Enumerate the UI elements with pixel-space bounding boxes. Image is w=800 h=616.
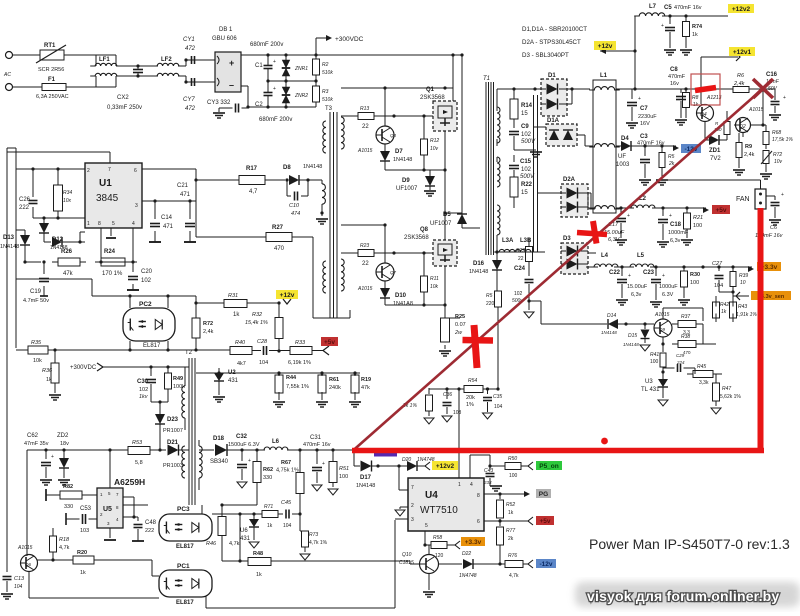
svg-text:100: 100 xyxy=(650,359,659,365)
svg-text:1%: 1% xyxy=(466,402,474,408)
svg-text:Q10: Q10 xyxy=(402,552,412,558)
svg-text:ZNR1: ZNR1 xyxy=(294,66,308,72)
svg-text:3845: 3845 xyxy=(96,193,119,204)
resistor R20 xyxy=(73,550,94,576)
wire xyxy=(567,87,590,104)
svg-text:470mF 16v: 470mF 16v xyxy=(637,141,665,147)
svg-text:PC2: PC2 xyxy=(139,301,152,308)
svg-text:R74: R74 xyxy=(692,24,703,30)
svg-text:+: + xyxy=(669,213,672,219)
T3 winding right xyxy=(341,117,344,149)
svg-text:A1015: A1015 xyxy=(654,312,670,318)
wire U6 row xyxy=(212,512,302,562)
wire xyxy=(196,179,238,181)
svg-text:R42: R42 xyxy=(720,302,729,308)
resistor R13 xyxy=(358,106,374,130)
svg-text:3,3k: 3,3k xyxy=(699,380,709,386)
svg-text:EL817: EL817 xyxy=(176,544,194,550)
svg-text:104: 104 xyxy=(14,584,23,590)
wire Q9 top xyxy=(663,308,703,321)
svg-text:+: + xyxy=(273,59,276,65)
capacitor C23 xyxy=(643,267,678,307)
label +5v xyxy=(536,516,554,525)
resistor R14 xyxy=(510,89,533,119)
resistor R77 xyxy=(497,521,516,564)
svg-text:10: 10 xyxy=(740,280,746,286)
resistor R58 xyxy=(431,535,447,559)
svg-text:D13: D13 xyxy=(3,235,15,241)
inductor LF2 xyxy=(152,57,184,76)
wire xyxy=(341,115,358,117)
svg-text:PC3: PC3 xyxy=(177,506,190,513)
svg-text:102: 102 xyxy=(141,278,152,284)
capacitor C30 xyxy=(137,367,156,402)
svg-text:C45: C45 xyxy=(281,500,292,506)
svg-text:D1: D1 xyxy=(548,73,556,79)
svg-text:R19: R19 xyxy=(361,377,371,383)
svg-text:1N4148: 1N4148 xyxy=(356,483,375,489)
shunt regulator U3 TL431 xyxy=(641,374,668,406)
wire xyxy=(271,561,419,564)
svg-text:+12v: +12v xyxy=(598,43,613,50)
svg-text:L4: L4 xyxy=(601,253,609,259)
diode D14 xyxy=(601,313,626,335)
wire xyxy=(385,168,447,171)
svg-text:1k: 1k xyxy=(256,572,262,578)
svg-text:C9: C9 xyxy=(521,124,529,130)
T2 winding bottom L xyxy=(182,446,185,478)
svg-text:+: + xyxy=(627,213,630,219)
resistor R21 xyxy=(681,208,703,245)
svg-text:1: 1 xyxy=(458,482,461,488)
svg-text:7: 7 xyxy=(411,485,414,491)
resistor R62 xyxy=(220,450,273,507)
resistor R45 xyxy=(687,364,722,386)
capacitor C28 xyxy=(252,339,290,366)
wire +12v2 feed xyxy=(634,16,636,89)
capacitor C19 xyxy=(23,262,49,304)
wire xyxy=(292,237,313,318)
svg-text:D23: D23 xyxy=(167,417,179,423)
wire xyxy=(48,348,281,352)
svg-text:510k: 510k xyxy=(322,70,333,76)
svg-text:LF1: LF1 xyxy=(99,57,110,63)
svg-text:100: 100 xyxy=(690,280,699,286)
label +12v2 xyxy=(728,4,754,13)
svg-text:C43: C43 xyxy=(484,468,493,474)
wire pin5 xyxy=(423,531,431,554)
svg-text:4,75k 1%: 4,75k 1% xyxy=(276,468,299,474)
capacitor C53 xyxy=(66,506,97,534)
T2 winding bottom R xyxy=(199,440,202,490)
wire xyxy=(483,388,499,390)
wire Q10 base xyxy=(438,563,462,565)
svg-text:Q2: Q2 xyxy=(739,124,746,130)
svg-text:4,7k: 4,7k xyxy=(229,541,240,547)
svg-text:C48: C48 xyxy=(145,520,157,526)
label PG xyxy=(536,489,551,498)
inductor L3A L3B xyxy=(494,238,536,252)
annotation diagonal red line xyxy=(353,89,763,451)
mosfet Q8 xyxy=(404,227,457,266)
svg-text:D14: D14 xyxy=(607,313,616,319)
svg-text:15.00uF: 15.00uF xyxy=(627,284,648,290)
svg-text:10v: 10v xyxy=(430,146,439,152)
wire xyxy=(650,265,754,272)
diode D8 xyxy=(283,164,322,185)
svg-text:222: 222 xyxy=(145,528,154,534)
T1 winding sec2 xyxy=(495,205,500,254)
transistor Q7 xyxy=(357,225,397,292)
svg-text:470: 470 xyxy=(274,246,285,252)
svg-text:104: 104 xyxy=(283,523,292,529)
resistor R38 xyxy=(672,334,703,355)
wire T1 top out xyxy=(497,87,541,90)
wire +12v1 xyxy=(701,53,740,89)
wire bottom xyxy=(206,519,408,608)
resistor R55 xyxy=(402,388,434,424)
resistor R49 xyxy=(165,367,186,402)
annotation red X mark 1 xyxy=(577,221,607,244)
svg-text:4,7: 4,7 xyxy=(249,189,258,195)
wire xyxy=(178,58,215,83)
resistor R11 xyxy=(421,253,440,305)
resistor R35 xyxy=(28,340,48,364)
svg-text:D20: D20 xyxy=(402,457,411,463)
IC U5 A6259H xyxy=(97,477,145,528)
zener ZD2 xyxy=(57,433,70,485)
svg-text:330: 330 xyxy=(263,475,272,481)
svg-text:C24: C24 xyxy=(514,266,526,272)
resistor R10 xyxy=(714,111,730,135)
svg-text:C20: C20 xyxy=(141,269,153,275)
wire xyxy=(703,343,716,345)
svg-text:7: 7 xyxy=(108,167,111,173)
svg-text:R37: R37 xyxy=(681,314,690,320)
svg-text:R18: R18 xyxy=(59,537,70,543)
wire Q8 drain xyxy=(443,211,462,240)
svg-text:C7: C7 xyxy=(640,106,648,112)
ground xyxy=(213,108,227,118)
svg-text:C1815: C1815 xyxy=(399,560,414,566)
wire xyxy=(577,135,593,146)
svg-text:470mF 16v: 470mF 16v xyxy=(303,442,331,448)
capacitor C18 xyxy=(657,208,689,247)
wire xyxy=(588,193,591,208)
svg-text:3: 3 xyxy=(411,517,414,523)
svg-text:R21: R21 xyxy=(693,215,703,221)
svg-text:8: 8 xyxy=(477,493,480,499)
transistor Q9 xyxy=(654,312,672,337)
resistor R44 xyxy=(273,373,309,407)
svg-text:1003: 1003 xyxy=(616,162,630,168)
wire xyxy=(194,178,266,237)
svg-text:D2A - STPS30L45CT: D2A - STPS30L45CT xyxy=(522,39,581,46)
svg-text:R11: R11 xyxy=(430,276,439,282)
wire rail A xyxy=(534,95,538,252)
svg-text:1k: 1k xyxy=(508,510,514,516)
svg-text:1k: 1k xyxy=(80,570,86,576)
svg-text:+: + xyxy=(248,458,251,464)
diode D17 xyxy=(356,461,407,490)
capacitor C21 xyxy=(177,183,196,242)
svg-text:103: 103 xyxy=(80,528,89,534)
wire xyxy=(64,54,96,56)
resistor R59 xyxy=(486,291,502,389)
ground xyxy=(514,146,542,157)
svg-text:D2A: D2A xyxy=(563,177,576,183)
svg-text:L3A: L3A xyxy=(502,238,514,244)
svg-text:R35: R35 xyxy=(31,340,42,346)
svg-text:R67: R67 xyxy=(281,460,291,466)
rectifier D1A xyxy=(546,118,577,146)
wire +5v rail xyxy=(616,206,709,213)
svg-text:visyok для forum.onliner.by: visyok для forum.onliner.by xyxy=(587,588,779,604)
wire pin8 PG xyxy=(484,491,530,497)
resistor R39 xyxy=(730,267,748,292)
label 680mF 200v xyxy=(250,42,283,48)
svg-text:R29: R29 xyxy=(516,248,525,254)
label +5v xyxy=(321,337,338,346)
svg-text:22: 22 xyxy=(362,261,369,267)
svg-text:470mF 16v: 470mF 16v xyxy=(674,5,702,11)
capacitor CX2 xyxy=(107,66,143,111)
svg-text:R24: R24 xyxy=(104,249,116,255)
svg-text:4: 4 xyxy=(470,482,473,488)
capacitor C15 xyxy=(509,155,535,180)
svg-text:R72: R72 xyxy=(773,152,782,158)
svg-text:2230uF: 2230uF xyxy=(638,114,657,120)
svg-text:R40: R40 xyxy=(235,340,246,346)
svg-text:C10: C10 xyxy=(289,203,300,209)
wire xyxy=(196,371,275,374)
svg-text:+: + xyxy=(783,95,786,101)
svg-text:6: 6 xyxy=(477,519,480,525)
resistor R26 xyxy=(52,249,86,277)
svg-text:10k: 10k xyxy=(430,284,439,290)
svg-text:2: 2 xyxy=(411,503,414,509)
wire xyxy=(266,79,317,82)
svg-text:470mF: 470mF xyxy=(668,74,686,80)
svg-text:R62: R62 xyxy=(263,467,273,473)
wire xyxy=(116,64,158,77)
transistor Q2 xyxy=(734,107,764,133)
annotation red X mark C16 xyxy=(753,79,773,98)
svg-text:R46: R46 xyxy=(206,541,217,547)
wire Q1 source xyxy=(444,131,446,170)
wire xyxy=(151,400,168,414)
wire pin6 xyxy=(142,169,196,180)
svg-text:Q6: Q6 xyxy=(25,562,32,567)
wire xyxy=(13,54,41,56)
svg-text:15: 15 xyxy=(521,190,528,196)
svg-text:D17: D17 xyxy=(360,475,372,481)
svg-text:1N4748: 1N4748 xyxy=(459,573,477,579)
svg-text:C1: C1 xyxy=(255,63,263,69)
wire xyxy=(694,368,696,374)
svg-text:C21: C21 xyxy=(177,183,189,189)
svg-text:+: + xyxy=(51,454,54,460)
svg-text:20k: 20k xyxy=(466,395,475,401)
wire xyxy=(523,560,533,568)
svg-text:224: 224 xyxy=(676,360,685,365)
svg-text:Q1: Q1 xyxy=(426,87,435,93)
wire xyxy=(423,574,435,598)
svg-text:ZD2: ZD2 xyxy=(57,433,69,439)
svg-text:+: + xyxy=(638,96,641,102)
svg-text:GBU 606: GBU 606 xyxy=(212,36,237,42)
svg-text:500V: 500V xyxy=(521,139,536,145)
svg-text:+300VDC: +300VDC xyxy=(335,36,364,43)
svg-text:U6: U6 xyxy=(240,528,248,534)
wire xyxy=(341,223,387,226)
svg-text:0,33mF 250v: 0,33mF 250v xyxy=(107,105,142,111)
svg-text:R49: R49 xyxy=(173,376,183,382)
svg-text:1500uF 6.3V: 1500uF 6.3V xyxy=(228,442,260,448)
wire pin6 xyxy=(484,517,533,525)
label +3.3v xyxy=(461,537,485,546)
svg-text:C30: C30 xyxy=(137,379,149,385)
svg-text:C15: C15 xyxy=(520,159,532,165)
resistor R30 xyxy=(678,267,700,305)
wire xyxy=(66,86,96,88)
svg-text:+5v: +5v xyxy=(324,339,335,346)
svg-text:5: 5 xyxy=(112,221,115,227)
wire xyxy=(530,251,545,253)
svg-text:D21: D21 xyxy=(167,440,179,446)
resistor R73 xyxy=(300,531,328,560)
svg-text:6,3v: 6,3v xyxy=(631,292,642,298)
svg-text:4,7k: 4,7k xyxy=(509,573,519,579)
svg-text:TL 431: TL 431 xyxy=(641,387,660,393)
wire pin3 xyxy=(142,199,196,202)
shunt regulator U6 xyxy=(240,514,259,548)
svg-text:D9: D9 xyxy=(402,178,410,184)
svg-text:SCR 2R56: SCR 2R56 xyxy=(38,67,64,73)
transformer T2 xyxy=(185,350,195,505)
wire xyxy=(29,572,159,599)
svg-text:RT1: RT1 xyxy=(44,43,56,49)
wire xyxy=(0,0,1,1)
svg-text:2,4k: 2,4k xyxy=(733,81,745,87)
diode D4 xyxy=(616,136,631,168)
svg-text:120: 120 xyxy=(435,553,444,559)
svg-text:680mF 200v: 680mF 200v xyxy=(250,42,283,48)
svg-text:471: 471 xyxy=(180,192,191,198)
wire xyxy=(701,104,705,106)
svg-text:10v: 10v xyxy=(774,159,783,165)
svg-text:C18: C18 xyxy=(670,222,682,228)
capacitor CY7 xyxy=(183,78,196,112)
annotation red dot xyxy=(601,438,608,445)
thermistor R72 xyxy=(760,151,783,180)
svg-text:R13: R13 xyxy=(360,106,369,112)
diode D23 xyxy=(155,414,183,450)
svg-text:C26: C26 xyxy=(19,197,31,203)
svg-text:6,3V: 6,3V xyxy=(608,237,621,243)
capacitor C13 xyxy=(1,560,25,599)
svg-text:T2: T2 xyxy=(185,350,193,356)
wire xyxy=(462,227,480,229)
wire xyxy=(312,346,329,355)
wire xyxy=(521,462,533,470)
wire row326 xyxy=(0,0,1,1)
varistor ZNR1 xyxy=(282,55,308,81)
wire xyxy=(638,322,654,325)
svg-text:Q8: Q8 xyxy=(420,227,429,233)
optocoupler PC1 xyxy=(159,563,212,606)
svg-text:R73: R73 xyxy=(309,532,318,538)
wire xyxy=(497,251,534,253)
svg-text:U4: U4 xyxy=(425,490,438,501)
svg-text:330: 330 xyxy=(64,504,73,510)
wire xyxy=(661,337,664,352)
svg-text:R58: R58 xyxy=(433,535,442,541)
optocoupler PC3 xyxy=(159,506,212,550)
T1 winding sec1 xyxy=(497,157,500,187)
wire xyxy=(460,53,463,228)
svg-text:10x: 10x xyxy=(63,198,72,204)
capacitor C14 xyxy=(149,201,174,242)
wire xyxy=(354,450,360,466)
wire xyxy=(150,448,166,451)
wire Q8 source xyxy=(385,266,447,318)
svg-text:A1015: A1015 xyxy=(357,286,373,292)
resistor R8 xyxy=(683,89,699,118)
wire xyxy=(13,86,43,88)
svg-text:Q3: Q3 xyxy=(390,133,397,138)
svg-text:R5: R5 xyxy=(486,293,493,299)
capacitor C29 xyxy=(663,353,695,372)
svg-text:D4: D4 xyxy=(621,136,629,142)
wire gate1 xyxy=(374,114,437,117)
T3 winding left lower xyxy=(323,261,326,293)
wire xyxy=(109,450,111,488)
resistor R41 xyxy=(650,352,666,372)
svg-text:+: + xyxy=(662,273,665,279)
AC terminal N xyxy=(6,84,13,91)
svg-text:17,5k 1%: 17,5k 1% xyxy=(772,137,793,143)
svg-text:R8: R8 xyxy=(692,95,699,101)
svg-text:R41: R41 xyxy=(650,352,659,358)
svg-text:7,55k 1%: 7,55k 1% xyxy=(286,384,309,390)
svg-text:47k: 47k xyxy=(63,271,74,277)
transistor Q6 xyxy=(17,545,38,572)
svg-text:C32: C32 xyxy=(236,434,248,440)
resistor R50 xyxy=(505,456,521,479)
svg-text:104: 104 xyxy=(714,283,723,289)
svg-text:2SK3568: 2SK3568 xyxy=(404,235,429,241)
svg-text:A1015: A1015 xyxy=(748,107,764,113)
wire xyxy=(341,86,453,89)
wire row xyxy=(16,349,28,351)
wire Q1 drain xyxy=(451,53,454,101)
svg-text:R76: R76 xyxy=(508,553,517,559)
annotation thick red horizontal line xyxy=(352,448,764,454)
wire xyxy=(0,0,1,1)
annotation thick red vertical line xyxy=(758,208,764,453)
wire aux coil xyxy=(308,180,322,184)
svg-text:431: 431 xyxy=(240,536,251,542)
wire pin8 xyxy=(100,228,102,258)
diode D5 xyxy=(430,212,467,228)
varistor ZNR2 xyxy=(282,81,308,107)
wire +12v tap xyxy=(600,48,637,54)
svg-text:222: 222 xyxy=(19,205,30,211)
inductor L6 xyxy=(259,439,293,450)
capacitor C16 xyxy=(766,72,786,120)
wire R38 right xyxy=(702,324,704,344)
